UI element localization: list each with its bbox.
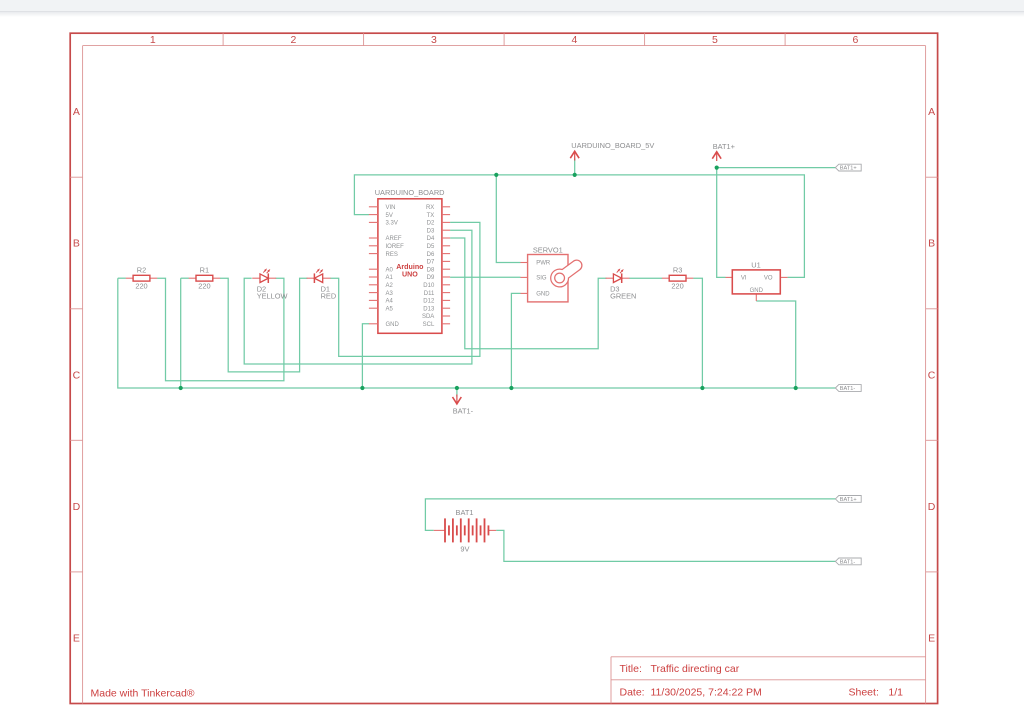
row tick left B|C bbox=[70, 308, 82, 310]
svg-text:5: 5 bbox=[712, 34, 718, 46]
svg-text:BAT1+: BAT1+ bbox=[840, 166, 857, 172]
svg-text:220: 220 bbox=[135, 282, 147, 291]
power arrow UARDUINO_BOARD_5V bbox=[570, 151, 579, 160]
svg-text:BAT1-: BAT1- bbox=[840, 386, 856, 392]
wire ground rail bbox=[118, 278, 836, 388]
svg-text:RX: RX bbox=[426, 205, 434, 211]
svg-text:Title:: Title: bbox=[620, 663, 642, 675]
svg-text:D3: D3 bbox=[427, 228, 435, 234]
junction dot (716.7,167.6) bbox=[715, 166, 719, 170]
svg-text:A: A bbox=[73, 106, 80, 118]
wire stem BAT1- arrow bbox=[456, 388, 458, 397]
svg-text:D12: D12 bbox=[423, 299, 435, 305]
svg-text:C: C bbox=[928, 369, 936, 381]
junction dot (456.9,388.0) bbox=[455, 386, 459, 390]
junction dot (511.4,388.0) bbox=[509, 386, 513, 390]
svg-text:VO: VO bbox=[764, 276, 773, 282]
column tick 5|6 bbox=[784, 33, 786, 45]
svg-text:D2: D2 bbox=[427, 221, 435, 227]
servo SERVO1 bbox=[521, 255, 582, 302]
svg-text:BAT1-: BAT1- bbox=[453, 407, 474, 416]
svg-text:3.3V: 3.3V bbox=[386, 221, 398, 227]
svg-text:PWR: PWR bbox=[536, 261, 551, 267]
row tick left A|B bbox=[70, 176, 82, 178]
svg-text:D: D bbox=[73, 501, 81, 513]
svg-text:D9: D9 bbox=[427, 275, 435, 281]
row tick right D|E bbox=[926, 571, 938, 573]
svg-text:D6: D6 bbox=[427, 252, 435, 258]
title block box bbox=[611, 657, 926, 704]
wire R2 left lead to corner bbox=[118, 277, 126, 279]
wire BAT1 positive to flag bbox=[425, 499, 835, 531]
svg-text:RED: RED bbox=[321, 291, 337, 300]
wire 5V rail: Arduino 5V to U1 VO bbox=[354, 175, 804, 278]
svg-text:GND: GND bbox=[386, 322, 400, 328]
svg-text:BAT1+: BAT1+ bbox=[713, 142, 735, 151]
svg-text:A1: A1 bbox=[386, 275, 394, 281]
row tick left D|E bbox=[70, 571, 82, 573]
junction dot (574.7,174.9) bbox=[573, 173, 577, 177]
row tick left C|D bbox=[70, 439, 82, 441]
junction dot (180.7,388.0) bbox=[179, 386, 183, 390]
svg-text:220: 220 bbox=[671, 282, 683, 291]
outer border frame bbox=[70, 33, 937, 703]
svg-text:Made with Tinkercad®: Made with Tinkercad® bbox=[91, 688, 195, 700]
svg-text:D10: D10 bbox=[423, 283, 435, 289]
svg-text:R2: R2 bbox=[137, 265, 146, 274]
resistor R2 (220) bbox=[126, 265, 157, 290]
svg-text:D11: D11 bbox=[424, 291, 435, 297]
net flag BAT1- (mid right) bbox=[835, 385, 861, 392]
junction dot (702.4,388.0) bbox=[700, 386, 704, 390]
svg-text:GND: GND bbox=[536, 292, 550, 298]
column tick 4|5 bbox=[644, 33, 646, 45]
svg-text:SERVO1: SERVO1 bbox=[533, 246, 563, 255]
svg-text:D8: D8 bbox=[427, 267, 435, 273]
svg-text:BAT1-: BAT1- bbox=[840, 559, 856, 565]
svg-text:6: 6 bbox=[852, 34, 858, 46]
wire R3 right to ground rail bbox=[693, 278, 702, 388]
column tick 3|4 bbox=[503, 33, 505, 45]
svg-text:A4: A4 bbox=[386, 299, 394, 305]
column tick 1|2 bbox=[222, 33, 224, 45]
wire Arduino D4 to D3 anode bbox=[450, 238, 606, 349]
net flag BAT1+ (top right) bbox=[835, 164, 861, 171]
svg-text:VIN: VIN bbox=[386, 205, 396, 211]
wire stem UARDUINO_BOARD_5V arrow bbox=[574, 159, 576, 175]
svg-text:A: A bbox=[928, 106, 935, 118]
wire Arduino D3 to D2 anode bbox=[244, 230, 472, 364]
svg-text:B: B bbox=[73, 238, 80, 250]
svg-text:Sheet:: Sheet: bbox=[849, 686, 879, 698]
inner border right line bbox=[925, 46, 927, 704]
svg-text:GREEN: GREEN bbox=[610, 291, 636, 300]
svg-text:IOREF: IOREF bbox=[386, 244, 405, 250]
svg-text:9V: 9V bbox=[460, 544, 469, 553]
row tick right B|C bbox=[926, 308, 938, 310]
svg-text:1: 1 bbox=[150, 34, 156, 46]
wire Arduino GND to ground rail bbox=[362, 324, 369, 388]
svg-text:D5: D5 bbox=[427, 244, 435, 250]
battery BAT1 9V bbox=[434, 518, 497, 542]
wire BAT1+ to U1 VI bbox=[717, 168, 726, 278]
wire SERVO1 GND to ground rail bbox=[511, 293, 520, 388]
power arrow BAT1- bottom bbox=[453, 395, 462, 404]
inner border top line bbox=[83, 45, 926, 47]
row tick right A|B bbox=[926, 176, 938, 178]
svg-text:Traffic directing car: Traffic directing car bbox=[651, 663, 740, 675]
wire R2 right to D2 cathode bbox=[157, 278, 284, 381]
svg-text:C: C bbox=[73, 369, 81, 381]
power arrow BAT1+ top bbox=[712, 152, 721, 161]
svg-text:SCL: SCL bbox=[423, 322, 435, 328]
svg-text:E: E bbox=[928, 632, 935, 644]
svg-text:D4: D4 bbox=[427, 236, 435, 242]
svg-text:A2: A2 bbox=[386, 283, 394, 289]
svg-text:1/1: 1/1 bbox=[888, 686, 903, 698]
svg-text:BAT1+: BAT1+ bbox=[840, 497, 857, 503]
wire BAT1+ rail to flag bbox=[717, 167, 836, 169]
LED D3 GREEN bbox=[606, 268, 637, 300]
svg-text:AREF: AREF bbox=[386, 236, 402, 242]
svg-text:R3: R3 bbox=[673, 265, 682, 274]
svg-text:UARDUINO_BOARD_5V: UARDUINO_BOARD_5V bbox=[571, 141, 654, 150]
svg-text:SIG: SIG bbox=[536, 276, 547, 282]
svg-text:R1: R1 bbox=[200, 265, 209, 274]
resistor R1 (220) bbox=[189, 265, 220, 290]
svg-text:4: 4 bbox=[571, 34, 577, 46]
wire R1 right to D1 cathode bbox=[220, 278, 307, 372]
top gray bar bbox=[0, 0, 1024, 12]
net flag BAT1+ (battery right) bbox=[835, 496, 861, 503]
svg-text:SDA: SDA bbox=[422, 314, 434, 320]
junction dot (362.4,388.0) bbox=[360, 386, 364, 390]
svg-text:UARDUINO_BOARD: UARDUINO_BOARD bbox=[375, 188, 445, 197]
net flag BAT1- (battery lower right) bbox=[835, 558, 861, 565]
wire Arduino D9 to SERVO1 SIG bbox=[450, 276, 520, 278]
wire 5V rail to SERVO1 PWR bbox=[496, 175, 520, 263]
svg-text:A0: A0 bbox=[386, 267, 394, 273]
LED D2 YELLOW bbox=[252, 268, 287, 300]
inner border left line bbox=[82, 46, 84, 704]
svg-text:2: 2 bbox=[290, 34, 296, 46]
svg-text:YELLOW: YELLOW bbox=[257, 291, 288, 300]
svg-text:E: E bbox=[73, 632, 80, 644]
svg-text:Date:: Date: bbox=[620, 686, 645, 698]
svg-text:VI: VI bbox=[741, 276, 747, 282]
svg-text:RES: RES bbox=[386, 252, 398, 258]
wire BAT1 negative to flag bbox=[496, 530, 835, 561]
svg-text:3: 3 bbox=[431, 34, 437, 46]
column tick 2|3 bbox=[363, 33, 365, 45]
Arduino UNO U board UARDUINO_BOARD bbox=[369, 199, 450, 333]
svg-text:B: B bbox=[928, 238, 935, 250]
junction dot (795.7,388.0) bbox=[794, 386, 798, 390]
wire R1 left lead stub bbox=[181, 277, 189, 279]
wire D3 cathode to R3 bbox=[629, 277, 662, 279]
svg-text:220: 220 bbox=[198, 282, 210, 291]
svg-text:5V: 5V bbox=[386, 213, 393, 219]
svg-text:A3: A3 bbox=[386, 291, 394, 297]
svg-text:UNO: UNO bbox=[402, 271, 418, 279]
wire Arduino D2 to D1 anode bbox=[330, 222, 480, 356]
row tick right C|D bbox=[926, 439, 938, 441]
wire R1 left lead to ground rail bbox=[180, 278, 182, 388]
svg-text:TX: TX bbox=[427, 213, 435, 219]
svg-text:GND: GND bbox=[750, 288, 764, 294]
svg-text:D7: D7 bbox=[427, 260, 435, 266]
junction dot (496.3,174.9) bbox=[494, 173, 498, 177]
voltage regulator U1 bbox=[726, 270, 788, 301]
resistor R3 (220) bbox=[662, 265, 693, 290]
svg-text:A5: A5 bbox=[386, 306, 394, 312]
svg-text:BAT1: BAT1 bbox=[456, 508, 474, 517]
LED D1 RED bbox=[307, 268, 337, 300]
svg-text:U1: U1 bbox=[751, 260, 760, 269]
wire U1 GND to ground rail bbox=[756, 301, 795, 388]
svg-text:D: D bbox=[928, 501, 936, 513]
svg-text:11/30/2025, 7:24:22 PM: 11/30/2025, 7:24:22 PM bbox=[651, 686, 762, 698]
svg-text:D13: D13 bbox=[423, 306, 435, 312]
